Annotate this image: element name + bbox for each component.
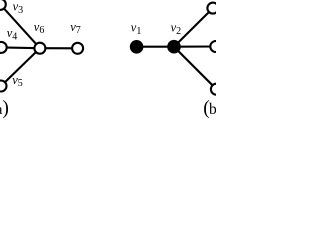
vertex v2 [167,40,181,54]
edge v1-v2 [137,46,174,48]
edge v2-bottom [174,47,216,89]
vertex v6 [34,43,45,54]
vertex mid-right [210,41,221,52]
vertex v5 [0,81,7,92]
edge v6-v3 [0,4,40,48]
vertex v7 [72,43,83,54]
svg-text:(a): (a) [0,98,9,119]
vertex v3 [0,0,6,10]
edge v2-mid [174,45,216,47]
vertex v4 [0,42,7,53]
edge v6-v5 [1,48,40,86]
edge v6-v4 [1,46,40,49]
svg-text:(b: (b [203,98,216,119]
vertex top-right [207,3,218,14]
vertex v1 [130,40,144,54]
vertex bottom-right [211,84,222,95]
edge v6-v7 [40,47,78,49]
edge v2-top [174,8,213,47]
